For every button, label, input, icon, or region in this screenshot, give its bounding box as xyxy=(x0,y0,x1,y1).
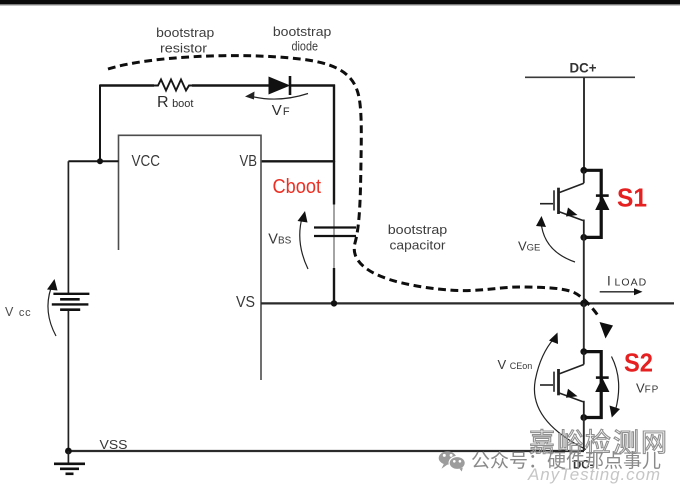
svg-text:公众号：硬件那点事儿: 公众号：硬件那点事儿 xyxy=(471,450,661,472)
svg-text:resistor: resistor xyxy=(160,41,207,55)
wire: top rail right segment xyxy=(291,84,335,86)
transistor S2 (IGBT with diode) xyxy=(540,348,609,421)
diode D1 (bootstrap diode) xyxy=(269,77,289,93)
svg-text:bootstrap: bootstrap xyxy=(388,223,448,237)
VFP arrow xyxy=(612,357,619,411)
battery arrow (Vcc) xyxy=(48,288,56,336)
transistor S1 (IGBT with diode) xyxy=(540,167,609,241)
watermark WeChat icon xyxy=(439,451,466,471)
wire: battery top lead xyxy=(67,161,69,293)
wire: left vertical from top rail xyxy=(99,85,101,162)
svg-text:Vcc: Vcc xyxy=(5,305,31,319)
wire: VB node down to Cboot xyxy=(333,161,335,204)
dashed charging path xyxy=(108,56,599,317)
driver IC box xyxy=(119,135,262,380)
wire: S2 emitter to DC- xyxy=(583,418,585,452)
wire: battery bottom lead xyxy=(67,311,69,452)
resistor R1 (bootstrap resistor) xyxy=(154,80,192,91)
capacitor C1 (Cboot) xyxy=(314,226,356,228)
VBS arrow xyxy=(300,216,308,269)
svg-text:S1: S1 xyxy=(617,183,647,213)
dashed path arrowhead xyxy=(600,322,614,339)
wire: output node to S2 collector xyxy=(583,303,585,352)
label bootstrap capacitor xyxy=(388,223,448,253)
svg-text:bootstrap: bootstrap xyxy=(156,26,214,40)
VCEon arrow xyxy=(534,339,586,450)
label: bootstrap diode xyxy=(273,25,332,54)
VF arc arrow xyxy=(248,94,308,100)
wire: Cboot to VS rail xyxy=(333,268,335,303)
wire: VS rail (box to load) xyxy=(261,302,674,304)
top border bar xyxy=(0,0,680,4)
battery V1 (Vcc source) xyxy=(53,293,89,295)
wire: vertical diode to VB node xyxy=(333,85,335,163)
I LOAD arrow xyxy=(600,291,634,293)
svg-text:VS: VS xyxy=(236,294,255,311)
DC+ rail xyxy=(525,76,635,78)
wire: VSS rail xyxy=(68,450,584,452)
label: bootstrap resistor xyxy=(156,26,214,56)
svg-text:diode: diode xyxy=(292,39,319,54)
wire: VCC rail xyxy=(68,160,118,162)
svg-text:VSS: VSS xyxy=(100,437,128,452)
svg-text:VB: VB xyxy=(240,153,258,170)
wire: DC+ to S1 collector xyxy=(583,77,585,171)
node: VCC junction xyxy=(97,158,103,164)
node: VSS junction xyxy=(65,448,72,455)
node: output junction xyxy=(580,300,587,307)
svg-text:bootstrap: bootstrap xyxy=(273,25,332,39)
wire: top rail middle segment xyxy=(192,84,270,86)
ground xyxy=(67,451,69,463)
VGE arrow xyxy=(541,221,575,262)
wire: S1 emitter to output node xyxy=(583,237,585,303)
svg-text:S2: S2 xyxy=(624,348,653,378)
node: Cboot-VS junction xyxy=(331,300,337,306)
wire: VB pin to vertical xyxy=(261,160,335,162)
svg-text:DC+: DC+ xyxy=(570,59,597,75)
svg-text:capacitor: capacitor xyxy=(390,239,446,253)
svg-text:I LOAD: I LOAD xyxy=(607,274,647,289)
wire: top rail left segment xyxy=(100,84,154,86)
svg-text:VCC: VCC xyxy=(132,153,161,170)
svg-text:Cboot: Cboot xyxy=(273,176,322,198)
